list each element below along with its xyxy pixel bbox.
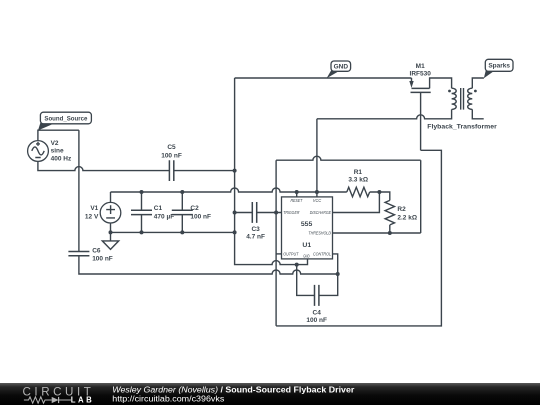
svg-text:V1: V1 [90, 205, 98, 212]
wire VCC riser and transformer return down x=316.9 [316, 119, 318, 197]
svg-text:GND: GND [334, 64, 349, 71]
wire CONTROL stub and C4 right riser [319, 254, 338, 296]
wire C4 left riser [297, 265, 315, 296]
wire V2 top to node riser [38, 130, 79, 140]
svg-text:VCC: VCC [313, 198, 322, 204]
wire THRESHOLD loop top y=160.2 (hop at 316.9) [276, 156, 421, 160]
capacitor C4 [306, 285, 327, 324]
svg-text:C5: C5 [167, 144, 176, 151]
wire +12V rail y=192 (hops at 234.6, 276.1) [111, 188, 347, 192]
wire TRIGGER left segment with C3 gap [235, 212, 282, 214]
svg-text:U1: U1 [302, 242, 311, 249]
svg-text:R2: R2 [397, 206, 406, 213]
svg-text:CONTROL: CONTROL [313, 251, 331, 257]
wire RESET riser [296, 192, 298, 197]
wire transformer primary return y=118.8 (hop at 420.6) [317, 109, 452, 118]
svg-text:C2: C2 [190, 205, 199, 212]
svg-text:12 V: 12 V [85, 213, 99, 220]
resistor R1 [347, 169, 370, 197]
wire C1 risers [141, 192, 143, 232]
svg-text:RESET: RESET [291, 198, 304, 204]
wire secondary bottom lead [472, 109, 483, 118]
svg-text:100 nF: 100 nF [92, 256, 113, 263]
node Sparks flag [484, 59, 513, 78]
svg-text:GND: GND [303, 253, 310, 259]
svg-text:R1: R1 [354, 169, 363, 176]
voltage source V2 (sine) [28, 140, 72, 162]
svg-text:Flyback_Transformer: Flyback_Transformer [427, 124, 497, 131]
footer url line [112, 395, 224, 404]
capacitor C6 [68, 248, 112, 263]
capacitor C3 [246, 202, 265, 240]
transformer Flyback_Transformer primary winding [448, 88, 456, 109]
svg-text:Sparks: Sparks [488, 63, 510, 70]
svg-text:sine: sine [51, 148, 64, 155]
node GND flag [327, 61, 351, 78]
ground [102, 232, 118, 249]
wire V1 bottom lead [110, 223, 112, 233]
svg-text:470 µF: 470 µF [154, 213, 174, 220]
svg-text:C4: C4 [313, 309, 322, 316]
wire THRESHOLD-TRIGGER loop vertical x=276.1 [275, 160, 277, 326]
svg-text:400 Hz: 400 Hz [51, 155, 72, 162]
svg-text:IRF530: IRF530 [410, 71, 432, 78]
wire THRESHOLD loop right vertical [420, 160, 422, 233]
transistor M1 IRF530 nmos [409, 63, 431, 92]
wire V1 top lead [110, 192, 112, 203]
svg-text:100 nF: 100 nF [190, 213, 211, 220]
svg-text:4.7 nF: 4.7 nF [246, 233, 265, 240]
wire secondary top lead [472, 78, 484, 88]
footer title line [112, 385, 354, 394]
op-amp U1 555 timer box [282, 197, 333, 260]
svg-text:Sound_Source: Sound_Source [44, 116, 87, 123]
wire ground net vertical x=234.6 [235, 78, 308, 265]
wire GND flag rail y=78 [235, 77, 412, 79]
transformer core [461, 88, 464, 110]
capacitor C1 [131, 205, 174, 221]
svg-text:C3: C3 [251, 226, 260, 233]
footer logo CIRCUIT [23, 386, 95, 399]
svg-text:555: 555 [301, 221, 313, 228]
svg-text:OUTPUT: OUTPUT [283, 251, 299, 257]
wire OUTPUT bottom run y=325.9 to gate riser [276, 150, 441, 326]
svg-text:TRIGGER: TRIGGER [283, 210, 300, 216]
resistor R2 [385, 200, 417, 225]
svg-text:Wesley Gardner (Novellus) / So: Wesley Gardner (Novellus) / Sound-Source… [112, 385, 354, 394]
svg-text:DISCHARGE: DISCHARGE [310, 210, 332, 216]
wire R2 bottom lead [389, 225, 391, 233]
wire OUTPUT stub [276, 253, 281, 255]
wire V2 bottom to C5 (hop over x=78.9) [38, 161, 169, 170]
footer logo schematic squiggle [24, 397, 71, 403]
wire DISCHARGE to R1/R2 node [333, 192, 380, 213]
wire MOSFET drain to primary top [430, 78, 452, 88]
wire C6 bottom to CONTROL node (hops at 276.1, 296.7) [79, 256, 338, 274]
svg-text:V2: V2 [51, 140, 59, 147]
wire C2 risers [181, 192, 183, 232]
svg-text:100 nF: 100 nF [306, 317, 327, 324]
svg-text:LAB: LAB [71, 395, 95, 404]
wire C5 right to ground vertical [174, 170, 235, 172]
voltage source V1 [85, 202, 121, 223]
node junction dots [109, 169, 392, 276]
transformer secondary winding [427, 88, 497, 131]
wire MOSFET gate lead down [420, 92, 422, 150]
svg-text:2.2 kΩ: 2.2 kΩ [397, 214, 417, 221]
capacitor C2 [172, 205, 211, 221]
svg-text:C6: C6 [92, 248, 101, 255]
wire ground rail y=232.4 [111, 231, 235, 233]
svg-text:100 nF: 100 nF [161, 152, 182, 159]
footer logo LAB [71, 395, 95, 404]
wire R1 right to R2 top corner [370, 192, 390, 200]
svg-text:M1: M1 [416, 63, 425, 70]
svg-text:3.3 kΩ: 3.3 kΩ [348, 177, 368, 184]
svg-text:THRESHOLD: THRESHOLD [308, 231, 331, 237]
node Sound_Source flag [38, 112, 91, 130]
wire THRESHOLD pin to loop [333, 232, 421, 234]
wire C6 branch x=78.9 down to control rail [78, 130, 80, 251]
capacitor C5 [161, 144, 182, 181]
svg-text:http://circuitlab.com/c396vks: http://circuitlab.com/c396vks [112, 395, 224, 404]
svg-text:C1: C1 [154, 205, 163, 212]
